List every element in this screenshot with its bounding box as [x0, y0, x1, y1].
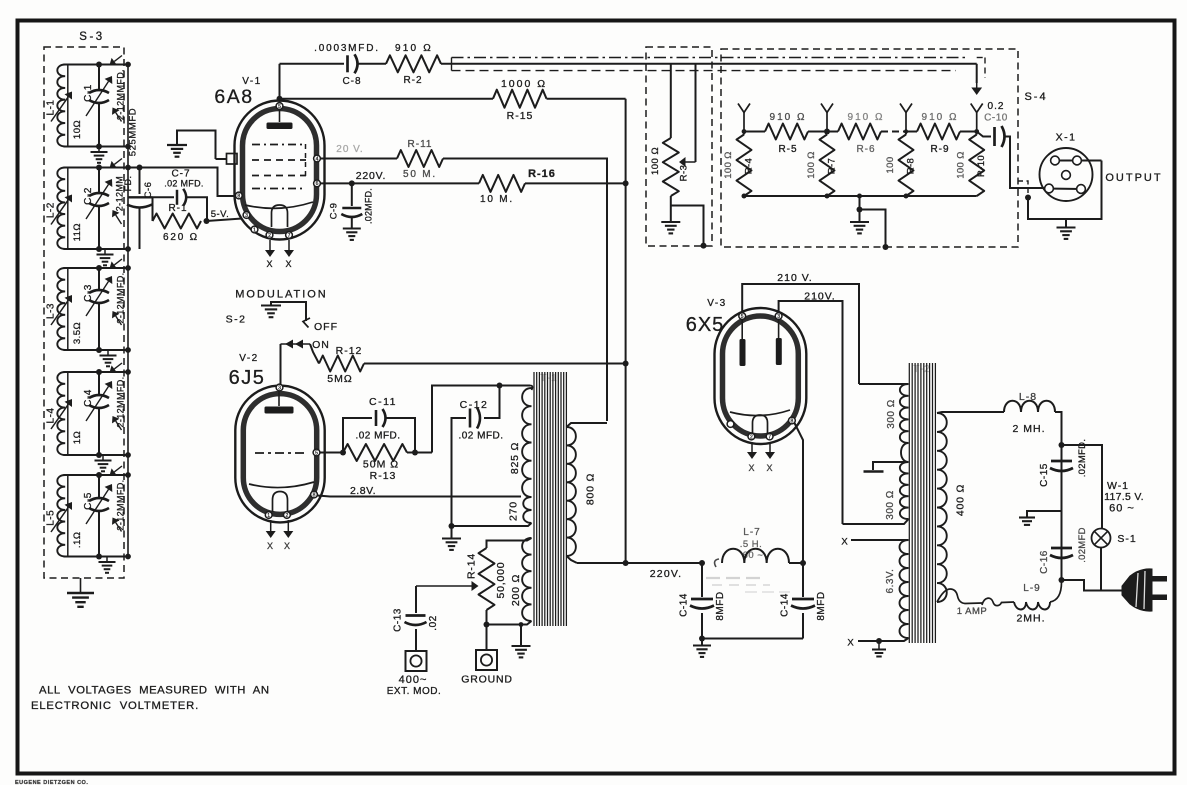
svg-text:S-4: S-4 [1024, 91, 1047, 103]
capacitor trimmer top cell 5 [114, 466, 122, 472]
svg-text:0.2: 0.2 [988, 101, 1005, 112]
tube V-2 cathode arc [249, 482, 314, 488]
switch contact fork above R-8 [900, 104, 912, 113]
capacitor C-7 [153, 196, 175, 198]
svg-text:X-1: X-1 [1056, 132, 1077, 144]
wire R-3 bottom to ground [670, 196, 672, 221]
svg-text:50M Ω: 50M Ω [363, 459, 399, 471]
resistor R-1 [153, 214, 202, 229]
wire T-2 HV top lead [859, 383, 909, 385]
svg-text:R-8: R-8 [906, 158, 917, 175]
pin X-1 top right [1073, 156, 1082, 165]
svg-text:3: 3 [245, 213, 248, 219]
capacitor trimmer bottom cell 4 [116, 421, 122, 430]
node filter ground [699, 636, 705, 642]
svg-text:50,000: 50,000 [495, 562, 507, 599]
pin 2 V-1 [266, 232, 273, 239]
wire R-16 to bus [525, 182, 626, 184]
capacitor C-14 second [802, 563, 804, 597]
pin 3 V-3 [775, 313, 782, 320]
svg-text:C-15: C-15 [1039, 463, 1050, 487]
capacitor C-11 branch [343, 418, 372, 453]
transformer T-1 winding 825 ohm [522, 388, 531, 497]
wire heater arrow X left V-1 [269, 240, 271, 250]
svg-text:R-5: R-5 [778, 144, 797, 155]
ground R-3 [661, 221, 680, 223]
node lamp branch [1059, 442, 1065, 448]
inductor L-7 [722, 549, 789, 563]
ground cell 2 [104, 249, 106, 255]
resistor R-8 [899, 135, 914, 197]
pin 1 V-2 [265, 512, 272, 519]
inductor L-2 [67, 168, 69, 250]
svg-text:L-1: L-1 [46, 100, 57, 116]
node top rail R-10 [974, 129, 979, 134]
svg-text:100 Ω: 100 Ω [956, 151, 967, 179]
svg-text:2-12MMFD.: 2-12MMFD. [116, 376, 126, 427]
svg-text:910 Ω: 910 Ω [770, 112, 807, 123]
svg-text:10Ω: 10Ω [72, 120, 83, 139]
resistor R-7 [820, 135, 835, 197]
pin 4 V-1 [314, 155, 321, 162]
transformer T-2 primary lower 300 ohm [900, 462, 909, 519]
wire wiper arrow R-3 [686, 161, 696, 163]
switch S-4 dashed enclosure [721, 49, 1018, 247]
wire C-8 to R-2 [358, 63, 387, 65]
svg-text:L-7: L-7 [743, 527, 760, 538]
svg-text:2: 2 [750, 434, 753, 440]
svg-text:210 V.: 210 V. [777, 272, 812, 284]
inductor L-4 [67, 372, 69, 455]
svg-text:1: 1 [267, 513, 270, 519]
svg-text:8MFD: 8MFD [816, 591, 827, 620]
wire filter bottom rail [702, 638, 803, 640]
transformer T-2 primary upper 300 ohm [900, 384, 909, 443]
svg-text:5: 5 [315, 450, 318, 456]
svg-text:R-16: R-16 [528, 168, 556, 180]
tube V-1 heater [272, 205, 288, 227]
svg-text:L-9: L-9 [1023, 583, 1040, 594]
wire slider arrow L-2 [51, 200, 68, 225]
wire ground branch C filter [1027, 511, 1062, 517]
svg-text:EXT. MOD.: EXT. MOD. [387, 686, 442, 697]
svg-text:6: 6 [316, 181, 319, 187]
svg-text:620 Ω: 620 Ω [163, 232, 199, 243]
node top rail cell 3 [64, 267, 129, 269]
wire R-14 wiper [416, 585, 472, 587]
wire R-12 to bus [364, 363, 626, 365]
wire junction to plug [1062, 580, 1123, 591]
svg-text:2MH.: 2MH. [1016, 613, 1045, 625]
node top rail cell 2 [64, 167, 129, 169]
svg-text:60 ~: 60 ~ [1109, 503, 1135, 515]
resistor R-15 [493, 90, 547, 108]
plug W-1 [1122, 569, 1152, 611]
svg-text:C-13: C-13 [393, 608, 404, 632]
svg-text:6.3V.: 6.3V. [885, 569, 896, 594]
switch section dashed box around R-3 [646, 47, 712, 246]
wire 200 ohm top lead to R-14 [487, 538, 532, 548]
capacitor C-9 [351, 183, 353, 206]
switch S-2 off contact [303, 318, 310, 328]
ground C-9 [343, 227, 361, 229]
ground cell 5 [106, 557, 108, 563]
node plug junction [1059, 577, 1065, 583]
wire slider arrow L-1 [51, 97, 68, 122]
svg-text:2: 2 [286, 513, 289, 519]
svg-text:800 Ω: 800 Ω [585, 473, 597, 505]
svg-text:.02 MFD.: .02 MFD. [355, 431, 400, 442]
wire 6.3V top lead with X [851, 539, 909, 541]
node C-9 junction [349, 180, 355, 186]
ground cell 3 [107, 350, 109, 356]
svg-text:.02 MFD.: .02 MFD. [164, 179, 203, 189]
node top rail cell 1 [64, 64, 129, 66]
ground V-1 grid return [177, 131, 216, 160]
wire slider arrow L-4 [51, 404, 68, 429]
capacitor trimmer bottom cell 2 [116, 215, 122, 224]
wire R-15 line [280, 98, 494, 100]
terminal GROUND [476, 650, 497, 670]
resistor R-14 potentiometer [479, 548, 495, 610]
node C-14b top [800, 560, 806, 566]
inductor L-5 [67, 475, 69, 557]
pin 7 V-3 [766, 433, 773, 440]
wire bottom rail S-4 [744, 195, 977, 197]
inductor L-9 [1014, 602, 1050, 610]
wire branch to lamp [1062, 445, 1103, 529]
svg-text:8: 8 [791, 418, 794, 424]
svg-text:V-3: V-3 [707, 298, 727, 309]
wire wiper riser R-3 [695, 64, 697, 162]
wire L-8 to C filter [1055, 412, 1062, 580]
wire T-2 HV bottom lead [843, 519, 909, 524]
resistor R-3 potentiometer [663, 138, 679, 196]
svg-text:S-3: S-3 [79, 31, 104, 43]
wire R-3 tap to box edge [671, 206, 704, 246]
wire S-2 off contact to ground [271, 302, 306, 321]
svg-text:1Ω: 1Ω [72, 431, 83, 444]
wire R-11 to transformer riser [443, 159, 607, 422]
pin 8 V-2 [311, 491, 318, 498]
svg-text:L-3: L-3 [46, 303, 57, 319]
resistor R-10 [969, 135, 984, 197]
capacitor C-3 variable [98, 268, 100, 289]
svg-text:220V.: 220V. [650, 568, 682, 580]
svg-text:C-16: C-16 [1039, 550, 1050, 574]
wire 400 ohm top lead to L-8 [937, 412, 1004, 413]
svg-text:C-6: C-6 [143, 182, 154, 199]
svg-text:6A8: 6A8 [214, 86, 253, 108]
wire S-4 tap to box bottom [860, 210, 886, 248]
wire V-1 plate to top line [279, 64, 281, 103]
connector X-1 shell [1040, 148, 1093, 201]
wire pin6 220V line [320, 182, 479, 184]
wire 400 ohm bottom lead to fuse [937, 589, 982, 604]
capacitor C-8 [346, 55, 349, 72]
terminal grid cap square V-1 [227, 154, 238, 165]
switch S-3 dashed enclosure [44, 47, 124, 578]
tube V-1 grid dashes [252, 144, 306, 146]
wire plate 5 to 210V [742, 284, 859, 384]
svg-text:220V.: 220V. [356, 170, 386, 182]
svg-text:400 Ω: 400 Ω [955, 484, 967, 516]
svg-text:1: 1 [253, 227, 256, 233]
capacitor trimmer top cell 2 [114, 159, 122, 165]
wire 6.3V bottom lead with X [858, 638, 909, 641]
resistor R-11 [397, 150, 443, 167]
resistor R-9 [906, 131, 917, 133]
wire pin4 to R-11 [320, 158, 397, 160]
tube V-1 6A8 envelope [235, 101, 325, 240]
svg-text:2-12MMFD.: 2-12MMFD. [116, 479, 126, 530]
svg-text:R-12: R-12 [336, 345, 363, 357]
pin 3 V-1 [243, 212, 250, 219]
svg-text:ELECTRONIC VOLTMETER.: ELECTRONIC VOLTMETER. [31, 700, 199, 712]
wire T-1 bottom lead [452, 523, 532, 526]
wire heater arrow X left V-2 [270, 520, 272, 531]
svg-text:C-1: C-1 [83, 84, 94, 102]
node top rail cell 5 [64, 474, 129, 476]
wire R-15 to B+ bus [547, 98, 626, 100]
wire bottom link to winding [487, 624, 522, 626]
wire L-7 smudge marks [706, 577, 762, 579]
svg-text:.0003MFD.: .0003MFD. [314, 43, 380, 54]
svg-text:20 V.: 20 V. [336, 144, 363, 155]
pin X-1 top left [1051, 156, 1060, 165]
tube V-3 plate bars [741, 319, 743, 339]
ground X-1 [1065, 219, 1067, 227]
tube V-1 plate bar [279, 109, 281, 122]
svg-text:S-1: S-1 [1117, 533, 1136, 545]
svg-text:C-11: C-11 [369, 396, 397, 408]
node R-13 left [340, 450, 346, 456]
node bus bottom [623, 560, 629, 566]
svg-text:825 Ω: 825 Ω [509, 442, 521, 474]
node C-14a top [699, 560, 705, 566]
svg-text:C-2: C-2 [83, 187, 94, 205]
svg-text:50 M.: 50 M. [403, 169, 437, 180]
svg-text:1 AMP: 1 AMP [957, 606, 988, 617]
svg-text:MODULATION: MODULATION [235, 289, 328, 301]
svg-text:5: 5 [278, 104, 281, 110]
node bottom rail cell 1 [64, 146, 129, 148]
node S-4 box bottom [883, 244, 889, 250]
wire ON contact to R-12 [310, 344, 319, 364]
pin 5 V-3 [739, 313, 746, 320]
switch S-2 arm [280, 344, 282, 385]
svg-text:.5 H.: .5 H. [740, 539, 763, 550]
svg-text:C-12: C-12 [460, 399, 489, 411]
ground C filter [1019, 516, 1035, 518]
svg-text:C-3: C-3 [83, 284, 94, 302]
capacitor trimmer top cell 3 [114, 259, 122, 265]
svg-text:R-14: R-14 [466, 553, 478, 579]
svg-text:R-11: R-11 [408, 139, 433, 150]
svg-text:C-9: C-9 [329, 203, 340, 220]
wire heater arrow X right V-3 [769, 442, 771, 452]
capacitor trimmer bottom cell 3 [116, 316, 122, 325]
wire S-4 ground stub [859, 196, 861, 221]
svg-text:T-2: T-2 [913, 364, 930, 375]
capacitor C-10 [977, 132, 991, 137]
svg-text:S-2: S-2 [226, 314, 247, 326]
wire X-1 return loop [1028, 161, 1102, 220]
ground S-4 [850, 221, 869, 223]
ground main S-3 [67, 592, 94, 594]
tube V-2 6J5 envelope [235, 386, 324, 523]
svg-text:100 Ω: 100 Ω [723, 151, 734, 179]
wire R-14 bottom [486, 610, 488, 650]
svg-text:.02MFD: .02MFD [1077, 527, 1088, 563]
wire 800 ohm top lead [567, 423, 608, 427]
node box1 bottom [701, 243, 707, 249]
svg-text:X: X [841, 537, 848, 548]
resistor R-6 [827, 131, 838, 133]
svg-text:2-12MMFD.: 2-12MMFD. [116, 69, 126, 120]
transformer T-1 core [533, 372, 535, 626]
svg-text:300 Ω: 300 Ω [885, 490, 896, 519]
tube V-2 heater [273, 492, 288, 513]
svg-text:ON: ON [312, 339, 330, 351]
svg-text:117.5 V.: 117.5 V. [1104, 491, 1144, 503]
wire heater arrow X left V-3 [751, 442, 753, 452]
node R-12 bus [623, 361, 629, 367]
wire T-2 center tap [901, 443, 909, 462]
svg-text:3: 3 [278, 385, 281, 391]
resistor R-16 [479, 175, 525, 192]
svg-text:X: X [748, 463, 755, 473]
svg-text:R-15: R-15 [507, 110, 534, 122]
pin 5 V-2 [313, 449, 320, 456]
node bottom rail cell 3 [64, 349, 129, 351]
ground cell 1 [98, 147, 100, 153]
svg-text:7: 7 [768, 434, 771, 440]
svg-text:L-2: L-2 [46, 202, 57, 218]
node C-12 ground junction [449, 523, 455, 529]
svg-text:2-12MMFD.: 2-12MMFD. [116, 272, 126, 323]
wire top line to R-3 top [670, 64, 672, 138]
svg-text:L-4: L-4 [46, 408, 57, 424]
wire shield dashed lower [452, 70, 957, 72]
pin X-1 bottom left [1045, 184, 1054, 193]
svg-text:ALL VOLTAGES MEASURED WITH: ALL VOLTAGES MEASURED WITH AN [39, 685, 270, 697]
svg-text:400~: 400~ [399, 674, 428, 686]
svg-text:2 MH.: 2 MH. [1012, 423, 1045, 435]
capacitor trimmer bottom cell 1 [116, 113, 122, 122]
wire dashed link to S-4 box [1018, 181, 1028, 195]
svg-text:C-10: C-10 [984, 113, 1008, 124]
svg-text:100 Ω: 100 Ω [650, 147, 661, 175]
switch contact fork above R-4 [738, 104, 750, 113]
svg-text:.02 MFD.: .02 MFD. [458, 431, 503, 442]
svg-text:5: 5 [741, 314, 744, 320]
fuse 1 AMP [982, 598, 1014, 605]
svg-text:X: X [267, 541, 274, 551]
svg-text:OFF: OFF [314, 321, 338, 333]
wire 800 ohm bottom lead [567, 556, 578, 563]
svg-text:60 ~: 60 ~ [743, 550, 764, 561]
svg-text:C-4: C-4 [83, 389, 94, 407]
capacitor C-2 variable [98, 168, 100, 193]
tube V-3 cathode arc [730, 410, 790, 416]
wire shield left end [451, 58, 453, 71]
svg-text:X: X [847, 638, 854, 649]
svg-text:2.8V.: 2.8V. [350, 485, 376, 497]
switch contact fork above R-7 [821, 104, 833, 113]
svg-text:910 Ω: 910 Ω [395, 43, 433, 54]
svg-text:6X5: 6X5 [686, 314, 725, 336]
transformer T-1 winding 270 [523, 497, 531, 523]
wire plate 3 to 210V lower [779, 301, 843, 524]
pin 6 V-1 [314, 180, 321, 187]
resistor R-13 [343, 444, 407, 461]
node top rail cell 4 [64, 371, 129, 373]
svg-text:3.5Ω: 3.5Ω [72, 322, 83, 344]
svg-text:C-5: C-5 [83, 492, 94, 510]
wire lamp to plug wire [1100, 548, 1102, 591]
wire shield dash-dot upper [452, 57, 969, 59]
capacitor C-1 variable [98, 65, 100, 90]
capacitor C-15 [1051, 460, 1072, 463]
svg-text:200 Ω: 200 Ω [510, 574, 522, 606]
pin left V-3 [727, 421, 734, 428]
wire top line to C-8 [280, 63, 345, 65]
pin 7 V-1 [286, 232, 293, 239]
pin X-1 center [1062, 171, 1071, 180]
pin X-1 bottom right [1077, 185, 1086, 194]
node bottom rail cell 2 [64, 248, 129, 250]
wire cathode pin8 down to filter [795, 423, 804, 563]
wire pin5 to grid network [320, 452, 343, 454]
wire S-3 box to main ground [80, 578, 82, 593]
capacitor trimmer top cell 4 [114, 363, 122, 369]
svg-text:.02MFD.: .02MFD. [364, 188, 374, 224]
wire X-1 top pins link [1055, 160, 1102, 162]
capacitor C-6 [139, 168, 141, 195]
svg-text:11Ω: 11Ω [72, 223, 83, 241]
svg-text:R-4: R-4 [744, 158, 755, 175]
capacitor C-12 [484, 386, 500, 419]
svg-text:910 Ω: 910 Ω [848, 112, 885, 123]
svg-text:5MΩ: 5MΩ [327, 373, 352, 385]
svg-text:10 M.: 10 M. [480, 194, 514, 205]
ground S-2 [261, 304, 281, 306]
svg-text:R-1: R-1 [168, 203, 187, 214]
svg-text:.02: .02 [428, 615, 439, 630]
wire slider arrow L-5 [51, 507, 68, 532]
tube V-2 plate bar [278, 391, 280, 407]
wire 220V rail [577, 562, 702, 564]
wire B+ bus vertical [625, 99, 627, 563]
inductor L-8 [1004, 401, 1055, 412]
pin 2 V-3 [748, 433, 755, 440]
wire junction to winding bottom [452, 525, 525, 527]
svg-text:2: 2 [268, 233, 271, 239]
inductor L-3 [67, 268, 69, 350]
svg-text:100: 100 [885, 156, 896, 173]
pin 5 top V-1 [276, 103, 283, 110]
svg-text:OUTPUT: OUTPUT [1105, 172, 1162, 184]
svg-text:3: 3 [777, 314, 780, 320]
svg-text:210V.: 210V. [804, 291, 835, 303]
svg-text:EUGENE DIETZGEN CO.: EUGENE DIETZGEN CO. [15, 780, 88, 785]
resistor R-4 [737, 135, 752, 197]
svg-text:L-8: L-8 [1019, 391, 1037, 403]
wire L-9 to junction [1050, 582, 1062, 602]
svg-text:C-14: C-14 [679, 593, 690, 617]
wire heater arrow X right V-1 [288, 240, 290, 250]
